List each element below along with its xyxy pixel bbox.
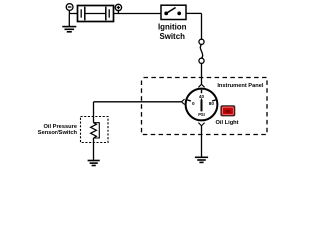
- oil light L1: [221, 106, 235, 116]
- gauge tick left: [187, 100, 191, 101]
- svg-text:80: 80: [209, 101, 215, 106]
- ignition switch S1: [161, 5, 186, 19]
- battery B1: [78, 6, 114, 22]
- wire into sensor: [93, 117, 95, 123]
- resistor (variable sensor element): [91, 123, 97, 138]
- crow's foot top terminal: [198, 84, 204, 87]
- svg-text:0: 0: [192, 101, 195, 106]
- instrument panel dashed box: [142, 78, 268, 135]
- gauge M1: [186, 89, 218, 121]
- ground G1: [62, 27, 76, 32]
- gauge needle: [201, 98, 203, 112]
- switch bypass bracket: [94, 123, 100, 138]
- svg-text:OIL: OIL: [225, 110, 231, 114]
- battery positive terminal: [115, 4, 121, 13]
- connector ring bottom: [199, 58, 204, 63]
- crow's foot left terminal: [181, 99, 184, 104]
- wire gauge left drop to sensor: [93, 102, 95, 117]
- svg-text:PSI: PSI: [198, 112, 205, 117]
- wire sensor to ground: [93, 138, 95, 160]
- battery negative terminal: [66, 4, 73, 14]
- wire battery minus to ground: [69, 14, 77, 27]
- connector ring top: [199, 39, 204, 44]
- ground G2: [88, 161, 100, 166]
- wavy connector wire: [200, 44, 202, 58]
- wire connector to gauge: [201, 63, 203, 84]
- crow's foot bottom terminal: [198, 123, 204, 126]
- svg-text:Sensor/Switch: Sensor/Switch: [38, 130, 78, 136]
- gauge tick right: [212, 100, 216, 101]
- wire gauge bottom to ground: [201, 126, 203, 157]
- svg-text:Instrument Panel: Instrument Panel: [217, 83, 264, 89]
- wire ignition switch to connector: [186, 13, 202, 39]
- gauge tick top: [201, 90, 203, 94]
- wire sensor to gauge: [94, 101, 182, 103]
- ground G3: [195, 157, 208, 162]
- oil pressure sensor dashed box: [81, 117, 109, 143]
- svg-text:Oil Light: Oil Light: [215, 120, 238, 126]
- wire battery plus to ignition switch: [114, 13, 162, 15]
- svg-text:Ignition: Ignition: [158, 22, 187, 31]
- svg-text:Switch: Switch: [159, 32, 185, 41]
